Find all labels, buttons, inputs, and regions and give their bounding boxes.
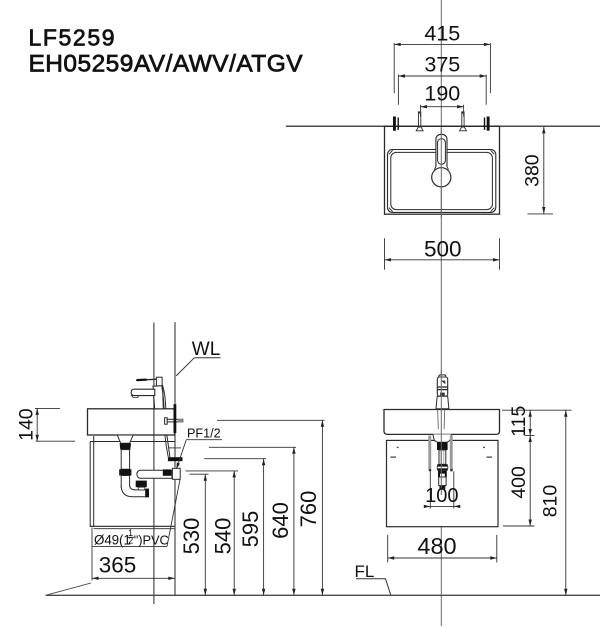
WL leader diagonal — [176, 358, 194, 376]
wall line (top view) — [286, 125, 600, 127]
drain funnel under sink (side view) — [117, 435, 133, 443]
svg-text:640: 640 — [268, 502, 293, 539]
PVC label leader to drain flange — [167, 480, 180, 547]
dimension 540 — [186, 471, 239, 595]
trap nut B (side view) — [119, 469, 131, 475]
drain valve black fitting at wall (side view) — [163, 469, 172, 475]
left faucet fixing screw (top view) — [416, 111, 423, 130]
PVC label underline — [92, 545, 167, 547]
drain wall flange (side view) — [172, 468, 180, 479]
trap nut A (side view) — [120, 443, 131, 449]
right wall mounting bolt (top view) — [484, 117, 490, 131]
svg-text:")PVC: ")PVC — [134, 532, 169, 547]
svg-text:100: 100 — [425, 485, 458, 507]
dimension 415 — [394, 22, 490, 94]
svg-text:115: 115 — [508, 406, 530, 437]
svg-text:400: 400 — [508, 466, 530, 499]
svg-text:190: 190 — [424, 82, 460, 106]
pop-up rod right (front view) — [450, 436, 453, 469]
dimension 760 — [217, 420, 325, 595]
supply pipe in wall black bar (side view) — [168, 457, 183, 461]
dimension 595 — [204, 459, 266, 596]
faucet cartridge knob (side view) — [156, 377, 162, 386]
cabinet front panel (side view) — [89, 442, 91, 528]
top extension line (sink top level, front view) — [502, 409, 572, 411]
svg-text:LF5259: LF5259 — [29, 24, 117, 50]
FL underline and diagonal to floor — [356, 579, 391, 595]
supply hose below sink to wall connector (side view) — [165, 435, 168, 457]
trap vertical pipe upper (side view) — [121, 450, 129, 470]
right faucet fixing screw (top view) — [460, 111, 467, 130]
faucet spout (side view) — [131, 389, 155, 395]
dimension 380 (top view height) — [522, 127, 553, 214]
sink outer outline (top view) — [385, 126, 500, 214]
stub between nut C and elbow (side view) — [138, 487, 145, 490]
PF1/2 label underline — [186, 439, 222, 441]
centerline (vertical axis through top and front views) — [440, 0, 442, 626]
svg-text:500: 500 — [424, 237, 462, 262]
dimension 140 (side view) — [16, 408, 75, 441]
centerline overlay through faucet and drain (top view) — [440, 128, 442, 218]
faucet body (side view) — [153, 386, 163, 409]
drain union fitting (front view) — [438, 471, 447, 477]
faucet body inner capsule (top view) — [438, 139, 446, 165]
basin rim outer line (top view) — [388, 150, 496, 213]
drain pipe upper (front view) — [439, 450, 446, 464]
floor line end diagonal tick — [46, 583, 91, 595]
cabinet bottom edge (side view) — [90, 525, 175, 527]
svg-text:810: 810 — [539, 485, 561, 518]
sink front outline — [384, 410, 500, 435]
drain hole circle (top view) — [432, 168, 451, 187]
dimension 365 — [92, 528, 175, 581]
svg-text:595: 595 — [238, 511, 263, 548]
svg-text:PF1/2: PF1/2 — [187, 427, 221, 441]
svg-text:480: 480 — [417, 533, 456, 559]
wall supply stub PF1/2 upper rod (side view) — [165, 418, 168, 424]
wall line inner (side view) — [174, 322, 176, 468]
dimension 190 — [421, 82, 464, 117]
PF1/2 leader with arrow — [177, 440, 186, 468]
dimension 480 (cabinet width) — [388, 533, 497, 562]
sink profile (side view) — [88, 409, 175, 435]
drain coupling nut (front view) — [437, 464, 448, 466]
stub end cap (side view) — [145, 489, 149, 498]
cabinet hinge dots (front view) — [397, 447, 399, 448]
svg-text:375: 375 — [424, 53, 460, 77]
dimension 530 (floor to drain) — [179, 474, 208, 595]
centerline overlay through faucet and drain (front view) — [440, 370, 442, 495]
faucet lever tip cap (front view) — [439, 375, 446, 379]
faucet head dark seam (front view) — [437, 386, 447, 388]
spout aerator lip (side view) — [132, 396, 138, 398]
svg-text:FL: FL — [355, 562, 375, 581]
faucet base flare (front view) — [436, 396, 449, 409]
pop-up rod left (front view) — [428, 436, 431, 469]
drain lower cylinder (front view) — [439, 477, 446, 486]
faucet supply hose above sink (side view) — [163, 386, 166, 409]
svg-text:EH05259AV/AWV/ATGV: EH05259AV/AWV/ATGV — [29, 50, 304, 77]
faucet body outer (top view) — [436, 134, 447, 166]
cabinet door dashes (front view) — [390, 456, 396, 458]
dimension 810 — [539, 410, 567, 595]
dimension 100 (drain rods spacing) — [424, 471, 461, 508]
svg-text:760: 760 — [296, 491, 321, 528]
left wall mounting bolt (top view) — [393, 117, 399, 131]
drain black nut (front view) — [437, 442, 448, 450]
svg-text:415: 415 — [424, 22, 460, 46]
wall line outer (side view) — [153, 323, 155, 605]
drain dome flange (front view) — [433, 434, 451, 442]
PVC fraction bar — [127, 536, 134, 538]
faucet lever handle (side view) — [136, 379, 157, 380]
basin corner fold ticks — [389, 150, 494, 211]
faucet lever head (front view) — [437, 377, 447, 396]
svg-text:365: 365 — [99, 553, 137, 578]
faucet neck flare (top view) — [434, 167, 436, 170]
cabinet top edge (side view) — [90, 441, 175, 443]
svg-text:380: 380 — [522, 154, 544, 187]
dimension 640 — [169, 447, 297, 595]
drain horizontal pipe to wall (side view) — [137, 470, 172, 478]
svg-text:540: 540 — [211, 518, 236, 555]
trap vertical pipe lower (side view) — [121, 476, 129, 488]
floor line — [46, 594, 600, 596]
trap elbow to horizontal stub (side view) — [121, 485, 148, 497]
basin rim inner line (top view) — [391, 152, 493, 209]
drain bottom cap (front view) — [440, 486, 446, 489]
svg-text:WL: WL — [192, 339, 221, 360]
svg-text:Ø49(1: Ø49(1 — [94, 532, 131, 547]
dimension 400 — [503, 436, 535, 527]
dimension 115 — [508, 406, 535, 437]
cabinet outline (front view) — [387, 440, 499, 526]
faucet head lower dark blob (front view) — [440, 393, 445, 396]
svg-text:530: 530 — [179, 518, 204, 555]
wall mounting bolt black bar (side view) — [174, 404, 177, 433]
WL leader underline — [194, 357, 220, 359]
faucet head detail triangle (front view) — [441, 381, 445, 385]
svg-text:140: 140 — [16, 408, 38, 441]
dimension 375 — [398, 53, 486, 105]
dimension 500 — [385, 237, 500, 270]
trap nut C (side view) — [136, 481, 147, 488]
faucet tail lines visible through sink (front view) — [437, 410, 440, 430]
